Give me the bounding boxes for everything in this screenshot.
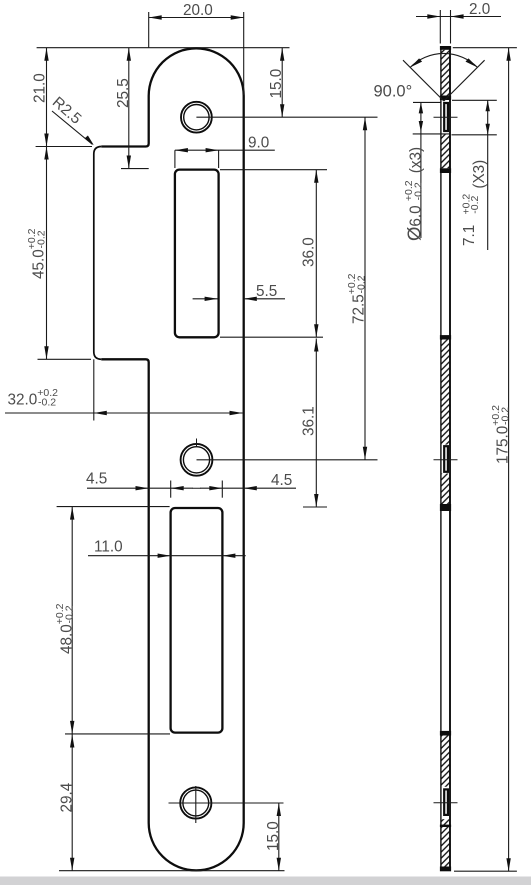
- dimension 15.0 bottom: [265, 803, 282, 871]
- strip hatch below top hole: [441, 134, 451, 168]
- svg-text:20.0: 20.0: [183, 2, 213, 19]
- strip solid cap below middle hole section: [440, 504, 451, 511]
- dimension 36.1: [301, 339, 319, 508]
- svg-text:9.0: 9.0: [248, 135, 269, 152]
- dimension 7.1 (X3): [452, 100, 497, 250]
- centerline tick section middle hole: [434, 459, 458, 461]
- strip solid cap at bend: [440, 96, 451, 101]
- dimension 20.0: [149, 2, 244, 20]
- extension line 9.0 right: [218, 150, 220, 168]
- hole middle (countersunk, double circle): [181, 444, 213, 476]
- strip solid cap top: [440, 46, 451, 50]
- strip solid cap bottom: [440, 867, 451, 872]
- svg-text:36.0: 36.0: [301, 237, 318, 267]
- extension line 9.0 left: [174, 150, 176, 168]
- dimension 175.0 +0.2/-0.2: [490, 48, 512, 872]
- strip hatch section top: [441, 50, 451, 96]
- extension line 20.0 right: [243, 12, 245, 95]
- svg-text:11.0: 11.0: [94, 539, 123, 556]
- dimension 29.4: [59, 734, 76, 871]
- strip right edge: [449, 47, 451, 872]
- dimension 5.5: [193, 283, 285, 301]
- centerline bottom hole vertical: [195, 786, 197, 823]
- hole slot middle (section): [444, 446, 448, 472]
- dimension 36.0: [301, 170, 319, 338]
- extension line strip top right: [453, 47, 517, 49]
- svg-text:4.5: 4.5: [86, 471, 107, 488]
- svg-text:90.0°: 90.0°: [374, 83, 413, 101]
- extension line plate top: [37, 47, 290, 49]
- svg-text:15.0: 15.0: [268, 69, 285, 99]
- extension line cutout1 top stub left: [121, 168, 149, 170]
- svg-text:29.4: 29.4: [59, 782, 76, 812]
- strip solid cap below top hole section: [440, 168, 451, 173]
- extension line plate bottom: [59, 870, 285, 872]
- dimension 2.0: [416, 1, 501, 19]
- centerline bottom hole horizontal: [169, 802, 284, 804]
- strip solid cap below bottom hole slot: [440, 825, 451, 827]
- strip left edge: [440, 47, 442, 872]
- hole bottom (countersunk, double circle): [180, 787, 211, 818]
- strip hatch above bottom hole: [441, 736, 451, 787]
- extension line step top left: [36, 146, 92, 148]
- plate lip left edge (front view): [94, 147, 102, 360]
- hole slot bottom (section): [444, 789, 448, 815]
- svg-text:4.5: 4.5: [271, 472, 292, 489]
- hole slot top (section): [444, 103, 448, 131]
- 90 degree arc with arrows: [410, 53, 477, 67]
- dimension 21.0: [32, 48, 49, 360]
- dimension 25.5: [115, 48, 132, 169]
- strip solid cap above bottom hole section: [440, 731, 451, 736]
- hole top (countersunk, double circle): [181, 102, 212, 133]
- dimension 15.0 top: [268, 48, 285, 118]
- centerline middle hole vertical dashes: [193, 439, 201, 489]
- extension line 2.0 left: [439, 10, 441, 44]
- svg-text:25.5: 25.5: [115, 78, 132, 108]
- extension line cutout2 top left: [57, 506, 170, 508]
- svg-text:15.0: 15.0: [265, 821, 282, 851]
- centerline tick section top hole: [434, 116, 458, 118]
- bottom gray band (screenshot edge): [0, 877, 531, 885]
- dimension dia 6.0 (x3): [403, 102, 450, 241]
- rectangular cutout lower: [171, 508, 223, 733]
- extension line 20.0 left: [148, 12, 150, 48]
- extension line lip bottom left: [38, 358, 92, 360]
- svg-text:21.0: 21.0: [32, 73, 49, 103]
- extension line strip bottom right: [454, 870, 517, 872]
- strip hatch below middle hole: [441, 474, 451, 505]
- dimension 4.5 right: [200, 472, 296, 490]
- centerline middle hole: [197, 459, 378, 461]
- extension line cutout1 top right: [220, 169, 327, 171]
- extension line cutout2 bottom left: [65, 733, 170, 735]
- strip hatch above middle hole: [441, 340, 451, 445]
- svg-text:5.5: 5.5: [256, 283, 277, 300]
- dimension 11.0: [88, 539, 246, 558]
- dimension 45.0 +0.2/-0.2: [26, 147, 49, 360]
- 90 degree bend annotation legs: [374, 53, 485, 101]
- dimension 48.0 +0.2/-0.2: [54, 507, 76, 734]
- svg-text:2.0: 2.0: [469, 1, 490, 18]
- label R2.5 with leader: [49, 94, 94, 145]
- rectangular cutout upper: [175, 170, 219, 338]
- extension line cutout2 left edge: [170, 481, 172, 498]
- dimension 72.5 +0.2/-0.2: [346, 117, 368, 460]
- dimension 4.5 left: [86, 471, 193, 491]
- dimension 32.0 +0.2/-0.2: [5, 387, 243, 415]
- centerline top hole: [196, 116, 377, 118]
- extension line 36.1 bottom stub: [303, 506, 327, 508]
- strip solid cap above middle hole section: [440, 335, 451, 339]
- dimension 9.0: [175, 135, 275, 153]
- plate outline (front view of strike plate): [101, 48, 243, 870]
- extension line 2.0 right: [450, 10, 452, 44]
- extension line lip left edge down to 32 dim: [93, 359, 95, 420]
- extension line cutout1 bottom right: [220, 336, 323, 338]
- svg-text:36.1: 36.1: [301, 406, 318, 436]
- strip hatch below bottom hole: [441, 819, 451, 866]
- extension line cutout2 right edge: [221, 481, 223, 498]
- centerline tick section bottom hole: [434, 802, 458, 804]
